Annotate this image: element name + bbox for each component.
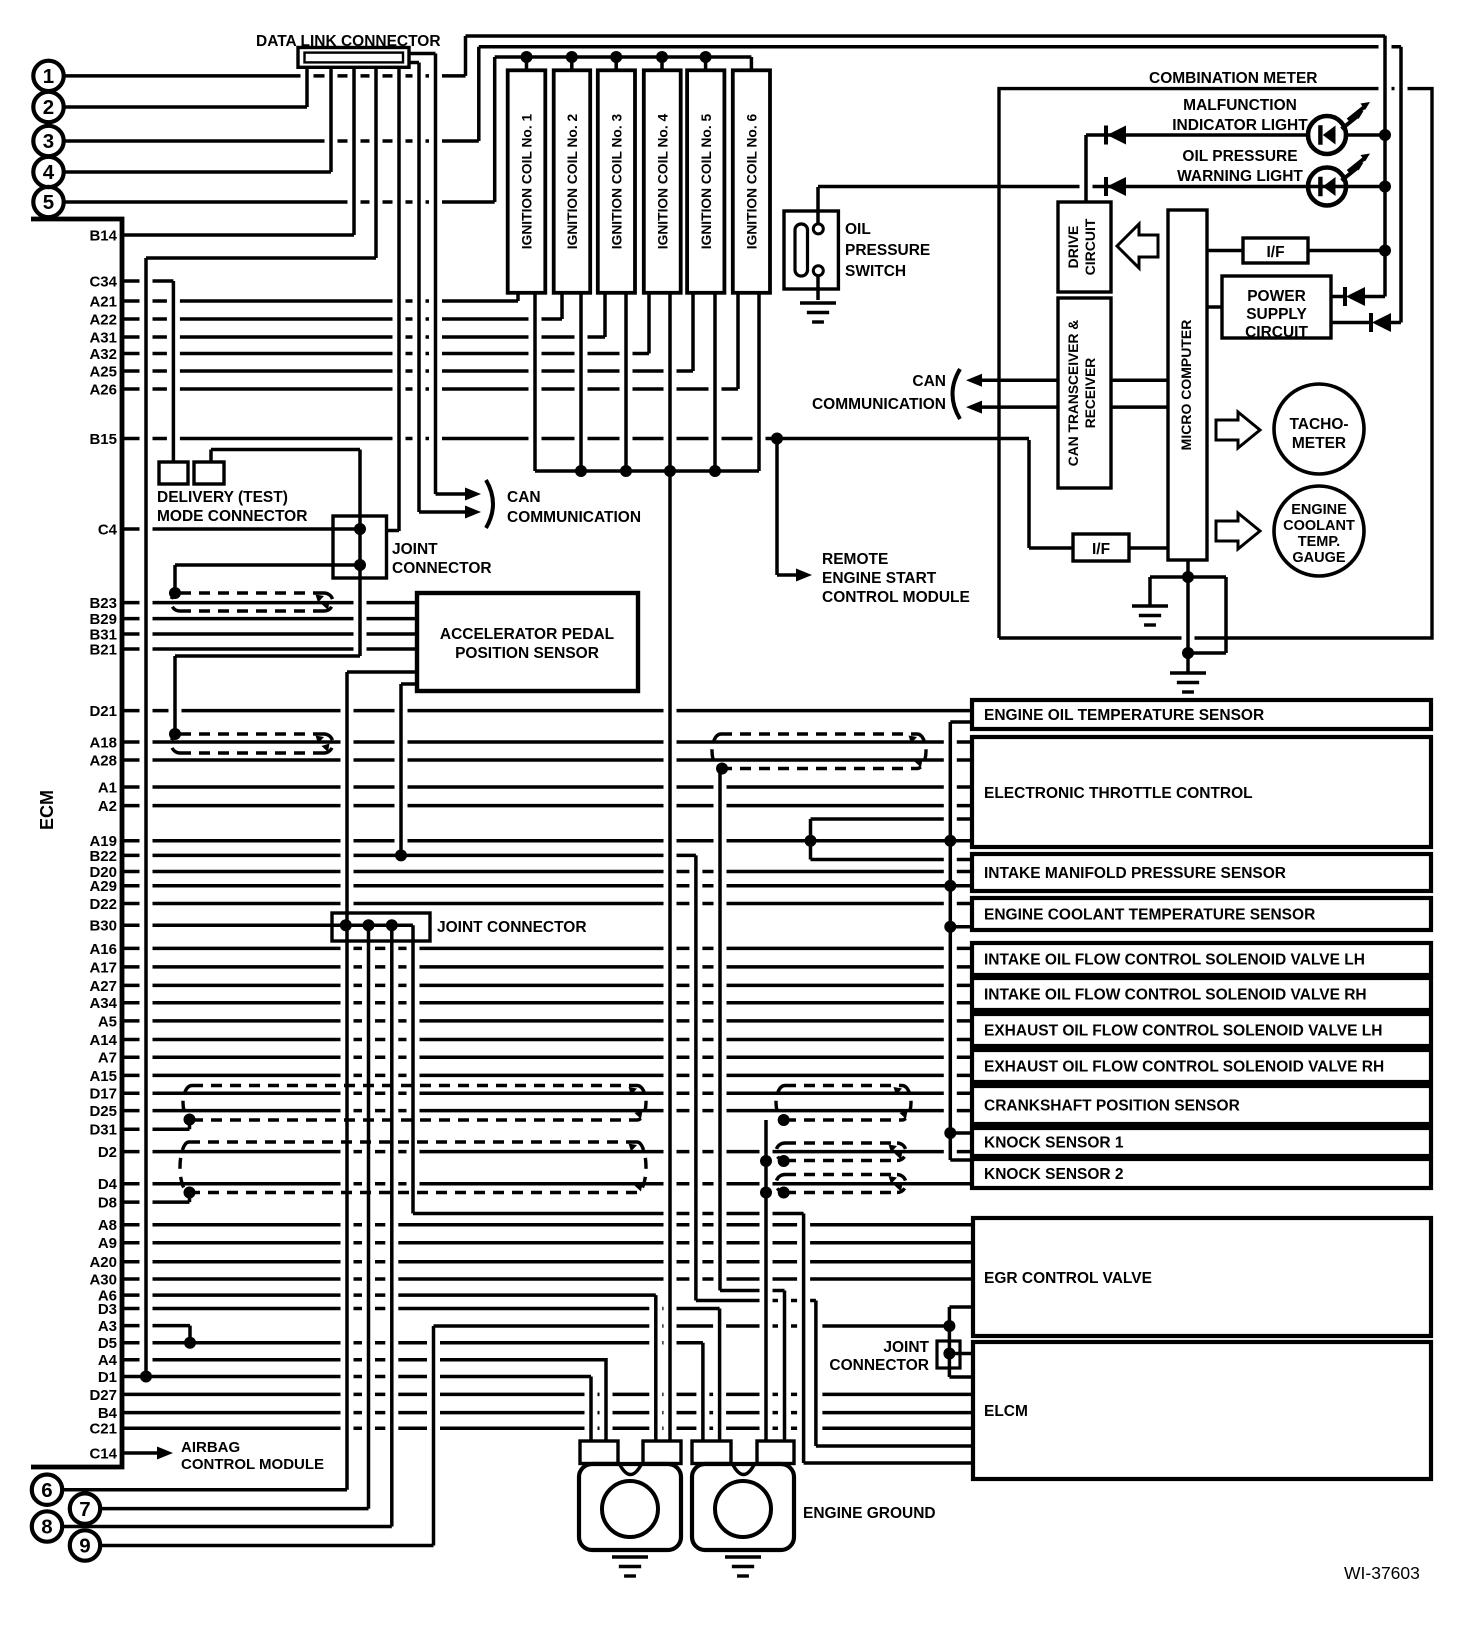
sensor bus to coolant sensor <box>950 925 972 929</box>
intake oil flow control solenoid valve LH box <box>972 943 1431 975</box>
wire MIL drive riser <box>1084 135 1088 202</box>
wire A6 <box>122 1293 656 1297</box>
junction dot at 766,1161 <box>760 1155 772 1167</box>
LED malfunction indicator <box>1308 116 1346 154</box>
wire circuit1 riser <box>464 36 468 76</box>
wire A15 <box>122 1074 972 1078</box>
wire D2 <box>122 1150 972 1154</box>
wire A20 <box>122 1260 972 1264</box>
oil pressure switch box <box>784 211 838 289</box>
junction dot at 146,1376.5 <box>140 1371 152 1383</box>
svg-text:D17: D17 <box>89 1086 117 1103</box>
joint connector 1 box <box>333 516 387 578</box>
svg-text:A32: A32 <box>89 346 117 363</box>
B30 net jog <box>413 1212 804 1216</box>
svg-text:A17: A17 <box>89 959 117 976</box>
terminal circle 3 <box>33 126 63 156</box>
svg-text:D27: D27 <box>89 1387 117 1404</box>
wire coil ground bus to engine ground <box>668 293 672 1441</box>
wire A3-to-D5 jog <box>188 1326 192 1343</box>
joint connector 2 box <box>332 913 430 941</box>
wire coil2 top stub <box>570 57 574 70</box>
diode MIL <box>1104 126 1108 145</box>
svg-text:INTAKE OIL FLOW CONTROL SOLENO: INTAKE OIL FLOW CONTROL SOLENOID VALVE R… <box>984 987 1367 1004</box>
wire B29 <box>122 617 417 621</box>
svg-text:IGNITION COIL No. 3: IGNITION COIL No. 3 <box>609 113 624 249</box>
svg-text:6: 6 <box>41 1479 52 1502</box>
wire APPS wire to circle6 <box>345 672 349 1490</box>
wire coil4 top stub <box>660 57 664 70</box>
wire D4 <box>122 1182 972 1186</box>
wire A22 <box>122 317 562 321</box>
wire A6 down to engine ground <box>654 1295 658 1441</box>
junction dot at 662,57 <box>656 51 668 63</box>
svg-text:DRIVE: DRIVE <box>1065 226 1081 269</box>
svg-text:A34: A34 <box>89 995 117 1012</box>
junction dot at 189.5,1192.5 <box>184 1187 196 1199</box>
wire B15 meter riser <box>1027 440 1031 548</box>
svg-text:EXHAUST OIL FLOW CONTROL SOLEN: EXHAUST OIL FLOW CONTROL SOLENOID VALVE … <box>984 1023 1382 1040</box>
svg-text:WARNING LIGHT: WARNING LIGHT <box>1177 168 1303 185</box>
sensor bus to knock sensor 1 <box>950 1131 972 1135</box>
wire supply vertical 2 <box>1399 47 1403 323</box>
wire D3 <box>122 1307 720 1311</box>
CAN wires meter side <box>982 380 1058 407</box>
svg-text:JOINT: JOINT <box>883 1339 929 1356</box>
LED oil pressure warning <box>1308 168 1346 206</box>
wire coil6 signal stub <box>736 293 740 389</box>
svg-text:PRESSURE: PRESSURE <box>845 242 930 259</box>
terminal circle 7 <box>70 1493 100 1523</box>
svg-text:C4: C4 <box>98 521 118 538</box>
junction dot at 1188,653 <box>1182 647 1194 659</box>
wire C21 <box>122 1427 972 1431</box>
wire circle 8 <box>63 1525 392 1529</box>
svg-text:POWER: POWER <box>1247 288 1306 305</box>
svg-text:A7: A7 <box>98 1050 117 1067</box>
junction dot at 391.8,925.3 <box>386 919 398 931</box>
junction dot at 581,471 <box>575 465 587 477</box>
DLC riser into joint connector 1 <box>387 529 400 533</box>
junction dot at 1385,186.5 <box>1379 181 1391 193</box>
wire coil5 ground stub <box>713 293 717 471</box>
wire circle9 riser <box>432 1326 436 1546</box>
wire C4 <box>122 527 360 531</box>
svg-text:CAN: CAN <box>507 489 541 506</box>
block arrow to tachometer <box>1216 412 1260 448</box>
wire A18 shield drain lower <box>718 769 722 1291</box>
wire knock shield drain <box>764 1120 768 1441</box>
block arrow to coolant gauge <box>1216 513 1260 549</box>
junction dot at 722,768.5 <box>716 763 728 775</box>
svg-text:AIRBAG: AIRBAG <box>181 1439 240 1456</box>
wire A8 <box>122 1223 972 1227</box>
wire joint connector 3 vertical <box>948 1307 952 1377</box>
electronic throttle control box <box>972 737 1431 847</box>
wire DLC pin riser 4 <box>329 67 333 172</box>
svg-text:ECM: ECM <box>37 790 57 830</box>
wire A4 <box>122 1358 606 1362</box>
arrow remote engine start <box>777 573 798 577</box>
ignition coil No.2 <box>554 70 591 292</box>
terminal circle 5 <box>33 187 63 217</box>
CAN brace right <box>953 369 961 419</box>
wire A16 <box>122 947 972 951</box>
junction dot at 345.8,925.3 <box>340 919 352 931</box>
svg-text:OIL PRESSURE: OIL PRESSURE <box>1182 148 1297 165</box>
wire D3 down to engine ground <box>718 1309 722 1442</box>
junction dot at 705.6,57 <box>700 51 712 63</box>
junction dot at 715,471 <box>709 465 721 477</box>
wire joint connector 1 vertical <box>358 450 362 657</box>
wire A25 <box>122 369 693 373</box>
wire coil3 ground stub <box>624 293 628 471</box>
shielded pair B23 <box>171 593 333 611</box>
svg-text:EXHAUST OIL FLOW CONTROL SOLEN: EXHAUST OIL FLOW CONTROL SOLENOID VALVE … <box>984 1059 1384 1076</box>
wire DLC-to-D1 riser <box>144 258 148 1377</box>
wire A5 <box>122 1019 972 1023</box>
wire APPS-to-B22 wire <box>399 684 403 855</box>
svg-text:A16: A16 <box>89 941 117 958</box>
svg-text:JOINT: JOINT <box>392 541 438 558</box>
shielded pair D4 right <box>776 1175 906 1193</box>
wire DLC pin riser 2 <box>305 67 309 107</box>
exhaust oil flow control solenoid valve RH box <box>972 1050 1431 1082</box>
wire DLC pin riser B14 <box>352 67 356 235</box>
svg-text:ENGINE OIL TEMPERATURE SENSOR: ENGINE OIL TEMPERATURE SENSOR <box>984 707 1264 724</box>
accelerator pedal position sensor box <box>417 593 638 691</box>
ignition coil No.4 <box>644 70 681 292</box>
wire circuit 5 <box>64 200 495 204</box>
DLC to D1 link <box>146 256 376 260</box>
wire D31 <box>122 1127 190 1131</box>
junction dot at 175,593 <box>169 587 181 599</box>
svg-text:C21: C21 <box>89 1421 117 1438</box>
wire circuit 1 <box>64 74 466 78</box>
A19 loop top <box>811 817 973 821</box>
wire A19 loop vertical <box>809 819 813 860</box>
svg-text:A20: A20 <box>89 1254 117 1271</box>
oil pressure switch element <box>795 224 808 276</box>
svg-text:MODE CONNECTOR: MODE CONNECTOR <box>157 508 307 525</box>
data link connector box <box>298 48 409 68</box>
svg-text:METER: METER <box>1292 435 1346 452</box>
junction dot at 526.5,57 <box>521 51 533 63</box>
terminal circle 4 <box>33 157 63 187</box>
svg-text:5: 5 <box>43 191 54 214</box>
wire circle 6 <box>63 1488 348 1492</box>
wire coil1 ground stub <box>533 293 537 471</box>
wire A18 <box>122 740 972 744</box>
wire D31 shield stub <box>188 1120 192 1130</box>
wire B14 <box>122 233 354 237</box>
wire oil switch ground wire <box>816 276 820 301</box>
svg-text:KNOCK SENSOR 1: KNOCK SENSOR 1 <box>984 1135 1124 1152</box>
junction dot at 810.5,840.8 <box>805 835 817 847</box>
sensor bus to knock sensor 2 <box>950 1158 972 1162</box>
wire coil4 signal stub <box>647 293 651 354</box>
ignition coil No.3 <box>598 70 635 292</box>
wire circle 7 <box>101 1507 369 1511</box>
svg-text:D5: D5 <box>98 1335 117 1352</box>
wire coil5 top stub <box>704 57 708 70</box>
svg-text:A21: A21 <box>89 293 117 310</box>
wire A29 <box>122 884 972 888</box>
svg-text:A3: A3 <box>98 1318 117 1335</box>
svg-text:D4: D4 <box>98 1176 118 1193</box>
ignition coil ground bus <box>535 469 759 473</box>
svg-text:ELECTRONIC THROTTLE CONTROL: ELECTRONIC THROTTLE CONTROL <box>984 785 1253 802</box>
wire coil1 top stub <box>525 57 529 70</box>
svg-text:D2: D2 <box>98 1144 117 1161</box>
svg-text:CAN: CAN <box>912 373 946 390</box>
ELCM box <box>973 1342 1431 1479</box>
wire DLC CAN wire A <box>417 63 421 513</box>
I/F box 2 <box>1073 534 1129 561</box>
wire B23 shield drain <box>173 565 177 593</box>
ignition coil top bus <box>495 55 752 59</box>
junction dot at 190,1342.7 <box>184 1337 196 1349</box>
wire coil2 signal stub <box>560 293 564 319</box>
svg-text:A9: A9 <box>98 1235 117 1252</box>
wire coil3 signal stub <box>603 293 607 337</box>
wire D20 <box>122 870 972 874</box>
svg-text:INDICATOR LIGHT: INDICATOR LIGHT <box>1172 117 1308 134</box>
meter external ground <box>1170 671 1206 674</box>
wire C14 <box>122 1451 157 1455</box>
junction dot at 175,734 <box>169 728 181 740</box>
wire B22 net down to ELCM <box>814 1301 818 1447</box>
top supply run 1 <box>466 34 1386 38</box>
shielded pair D2-D4 left <box>180 1142 646 1193</box>
wire A27 <box>122 984 972 988</box>
wire supply vertical 1 <box>1383 36 1387 297</box>
svg-text:SWITCH: SWITCH <box>845 263 906 280</box>
block arrow micro to drive <box>1117 224 1158 268</box>
wire A19 <box>122 839 972 843</box>
wire B15 riser to I/F2 to micro <box>1029 546 1168 550</box>
junction dot at 950.3,1133 <box>944 1127 956 1139</box>
svg-text:B30: B30 <box>89 918 117 935</box>
wire micro to I/F to supply <box>1207 249 1385 253</box>
junction dot at 1188,577 <box>1182 571 1194 583</box>
wire D5 down to engine ground <box>701 1343 705 1441</box>
wire A2 <box>122 804 972 808</box>
terminal circle 2 <box>33 92 63 122</box>
svg-text:WI-37603: WI-37603 <box>1344 1563 1420 1583</box>
terminal circle 9 <box>70 1530 100 1560</box>
svg-text:ENGINE: ENGINE <box>1291 502 1347 518</box>
svg-text:ENGINE GROUND: ENGINE GROUND <box>803 1505 936 1522</box>
ELCM wire from B22 net <box>816 1444 972 1448</box>
svg-text:CRANKSHAFT POSITION SENSOR: CRANKSHAFT POSITION SENSOR <box>984 1098 1240 1115</box>
arrow to airbag control module <box>157 1447 173 1460</box>
junction dot at 783.7,1192.5 <box>778 1187 790 1199</box>
junction dot at 670,471 <box>664 465 676 477</box>
wire DLC pin riser to D1 net <box>374 67 378 258</box>
CAN transceiver and receiver box <box>1058 298 1111 488</box>
engine coolant temperature sensor box <box>972 898 1431 930</box>
knock sensor 1 box <box>972 1128 1431 1156</box>
svg-text:I/F: I/F <box>1092 541 1110 558</box>
wire B21 <box>122 647 417 651</box>
svg-text:ELCM: ELCM <box>984 1403 1028 1420</box>
wire D1 <box>122 1375 591 1379</box>
svg-text:A18: A18 <box>89 734 117 751</box>
svg-text:IGNITION COIL No. 5: IGNITION COIL No. 5 <box>699 113 714 249</box>
DLC right pin stub upper <box>409 52 436 56</box>
wire circuit 4 <box>64 170 331 174</box>
junction dot at 1385,135 <box>1379 129 1391 141</box>
combination meter box <box>999 89 1432 638</box>
shielded pair A18-A28 right <box>712 734 926 769</box>
svg-text:D31: D31 <box>89 1122 117 1139</box>
junction dot at 1385,250.5 <box>1379 245 1391 257</box>
EGR control valve box <box>973 1218 1431 1336</box>
svg-text:D21: D21 <box>89 703 117 720</box>
svg-text:D1: D1 <box>98 1369 117 1386</box>
junction dot at 950.3,926.8 <box>944 921 956 933</box>
svg-text:B21: B21 <box>89 641 117 658</box>
svg-text:CIRCUIT: CIRCUIT <box>1245 324 1308 341</box>
svg-text:4: 4 <box>43 161 55 184</box>
wire sensor ground bus <box>949 722 953 1160</box>
joint connector 1 to A18 drain <box>175 654 360 658</box>
wire A18 shield drain upper <box>173 656 177 734</box>
wire A1 <box>122 785 972 789</box>
wire A30 <box>122 1277 972 1281</box>
svg-text:CAN TRANSCEIVER &: CAN TRANSCEIVER & <box>1066 320 1081 466</box>
joint connector 3 to EGR <box>949 1305 972 1309</box>
joint connector 1 to B23 drain <box>175 563 360 567</box>
diode OPWL <box>1104 177 1108 196</box>
wire joint connector 2 leg to circle7 <box>367 925 371 1508</box>
svg-text:9: 9 <box>79 1535 90 1558</box>
wire DLC pin riser to joint connector <box>397 67 401 531</box>
svg-text:ENGINE START: ENGINE START <box>822 570 937 587</box>
junction dot at 950.3,840.8 <box>944 835 956 847</box>
svg-text:B23: B23 <box>89 595 117 612</box>
svg-text:A14: A14 <box>89 1032 117 1049</box>
svg-text:A29: A29 <box>89 878 117 895</box>
junction dot at 368.5,925.3 <box>363 919 375 931</box>
APPS lower wire B <box>401 682 417 686</box>
wire A26 <box>122 387 738 391</box>
power supply diode wires <box>1331 295 1385 299</box>
svg-text:D22: D22 <box>89 896 117 913</box>
wire circle 9 <box>101 1544 434 1548</box>
wire B30 net down to ELCM <box>802 1214 806 1464</box>
terminal circle 8 <box>32 1511 62 1541</box>
junction dot at 766,1192.5 <box>760 1187 772 1199</box>
svg-text:KNOCK SENSOR 2: KNOCK SENSOR 2 <box>984 1166 1124 1183</box>
svg-text:CONTROL MODULE: CONTROL MODULE <box>822 589 970 606</box>
svg-text:D3: D3 <box>98 1301 117 1318</box>
joint connector 3 box <box>937 1341 960 1368</box>
svg-text:EGR CONTROL VALVE: EGR CONTROL VALVE <box>984 1270 1152 1287</box>
svg-text:ACCELERATOR PEDAL: ACCELERATOR PEDAL <box>440 626 614 643</box>
power supply circuit box <box>1222 276 1331 338</box>
delivery connector link <box>211 448 360 452</box>
meter internal ground <box>1132 604 1168 607</box>
svg-text:COMMUNICATION: COMMUNICATION <box>507 509 641 526</box>
svg-text:C14: C14 <box>89 1445 117 1462</box>
DLC right pin stub lower <box>409 61 419 65</box>
wires transceiver to micro <box>1111 380 1168 407</box>
junction dot at 360,565 <box>354 559 366 571</box>
wire delivery connector 2 riser <box>209 450 213 463</box>
sensor bus to oil temp sensor <box>950 720 972 724</box>
wire circuit5 riser to coil bus <box>493 57 497 202</box>
svg-text:CONTROL MODULE: CONTROL MODULE <box>181 1456 324 1473</box>
svg-text:8: 8 <box>41 1516 52 1539</box>
junction dot at 777,438.5 <box>771 433 783 445</box>
svg-text:A25: A25 <box>89 363 117 380</box>
wire remote start branch <box>775 439 779 576</box>
junction dot at 950.3,885.7 <box>944 880 956 892</box>
junction dot at 616.2,57 <box>610 51 622 63</box>
wire coil6 top stub <box>750 57 754 70</box>
wire A17 <box>122 965 972 969</box>
svg-text:3: 3 <box>43 130 54 153</box>
svg-text:A5: A5 <box>98 1013 117 1030</box>
svg-text:A30: A30 <box>89 1271 117 1288</box>
diode power supply 1 <box>1343 287 1347 306</box>
wire B15 <box>122 437 1029 441</box>
svg-text:7: 7 <box>79 1498 90 1521</box>
svg-text:MALFUNCTION: MALFUNCTION <box>1183 97 1297 114</box>
I/F box 1 <box>1243 238 1308 263</box>
wire joint connector 2 leg to circle8 <box>390 925 394 1526</box>
svg-text:TEMP.: TEMP. <box>1298 534 1340 550</box>
wire circuit 3 <box>64 139 479 143</box>
svg-text:ENGINE COOLANT TEMPERATURE SEN: ENGINE COOLANT TEMPERATURE SENSOR <box>984 907 1315 924</box>
junction dot at 571.8,57 <box>566 51 578 63</box>
wire circuit3 riser <box>477 47 481 141</box>
svg-text:OIL: OIL <box>845 221 871 238</box>
svg-text:D8: D8 <box>98 1195 117 1212</box>
engine ground assembly 1 <box>579 1464 681 1550</box>
wire C34 <box>122 279 173 283</box>
circle9 ground run <box>434 1324 950 1328</box>
wire D5 <box>122 1341 703 1345</box>
svg-text:JOINT CONNECTOR: JOINT CONNECTOR <box>437 919 587 936</box>
exhaust oil flow control solenoid valve LH box <box>972 1014 1431 1046</box>
svg-text:DELIVERY (TEST): DELIVERY (TEST) <box>157 489 288 506</box>
wire D17 <box>122 1091 972 1095</box>
A19 loop bottom <box>811 858 973 862</box>
junction dot at 949.4,1326 <box>943 1320 955 1332</box>
junction dot at 626,471 <box>620 465 632 477</box>
svg-text:A22: A22 <box>89 311 117 328</box>
wire D8 shield stub <box>188 1193 192 1203</box>
svg-text:B4: B4 <box>98 1405 118 1422</box>
svg-text:INTAKE OIL FLOW CONTROL SOLENO: INTAKE OIL FLOW CONTROL SOLENOID VALVE L… <box>984 952 1365 969</box>
wire A28 <box>122 758 972 762</box>
wire coil3 top stub <box>614 57 618 70</box>
shielded pair D17-D25 right <box>776 1086 911 1121</box>
oil pressure switch ground <box>800 301 836 304</box>
svg-text:A31: A31 <box>89 329 117 346</box>
svg-text:A8: A8 <box>98 1217 117 1234</box>
engine ground assembly 2 <box>692 1464 794 1550</box>
svg-text:A1: A1 <box>98 779 117 796</box>
shielded pair D2 right <box>776 1143 906 1161</box>
wire circuit 2 <box>64 105 307 109</box>
svg-text:REMOTE: REMOTE <box>822 551 888 568</box>
wire D21 <box>122 709 972 713</box>
wire B22 <box>122 854 696 858</box>
